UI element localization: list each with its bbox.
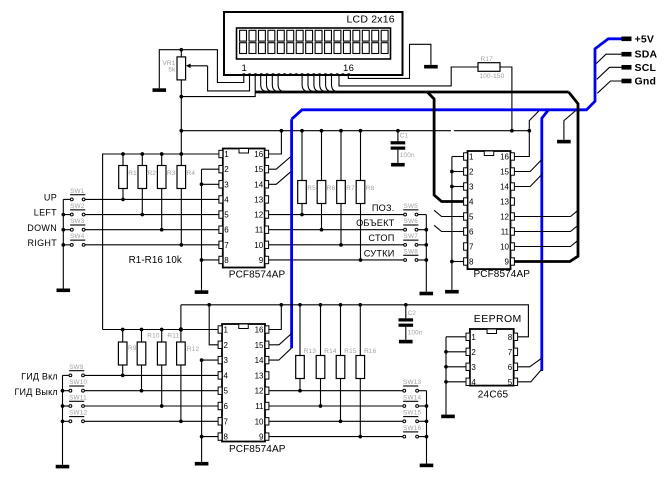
node IC1 pin16 rail junction	[280, 129, 284, 133]
svg-text:PCF8574AP: PCF8574AP	[229, 269, 286, 280]
svg-text:+5V: +5V	[635, 33, 655, 45]
svg-text:15: 15	[255, 341, 264, 350]
node SW common row 2	[61, 213, 65, 217]
node SW5-8 common row 3	[424, 258, 428, 262]
ground right of LCD	[424, 65, 438, 69]
wire SW2 left stub	[63, 214, 70, 216]
R1 label	[128, 170, 137, 177]
wire Gnd bundle to local ground	[564, 111, 576, 140]
svg-text:24C65: 24C65	[478, 389, 509, 400]
svg-text:5: 5	[224, 387, 229, 396]
wire IC2 pin14 to I2C branch	[514, 175, 541, 187]
svg-text:R14: R14	[324, 348, 337, 355]
wire SW13 right stub	[419, 390, 427, 392]
node R2 bottom	[140, 213, 144, 217]
LCD pin 1 label	[242, 63, 248, 74]
wire IC3 pins 3,8 common	[202, 360, 219, 462]
wire IC2 pin5 entry	[434, 210, 464, 216]
switch SW14	[403, 394, 422, 407]
node IC2 pin8 junction	[450, 260, 454, 264]
node SW9-12 common row 3	[61, 419, 65, 423]
ground for C1	[391, 163, 405, 167]
node SW13-16 common row 2	[425, 419, 429, 423]
resistor R12 body	[177, 330, 186, 422]
svg-text:R11: R11	[167, 333, 179, 340]
wire LCD bus turn down right	[514, 92, 578, 262]
wire IC1 pin16 to rail	[269, 131, 282, 154]
switch SW6	[403, 218, 418, 231]
node R5 bottom	[300, 213, 304, 217]
wire I2C bundle mid drop (blue)	[290, 119, 293, 348]
svg-text:5: 5	[224, 211, 229, 220]
node R5 rail	[300, 129, 304, 133]
wire IC1 pin15 to I2C	[269, 156, 292, 169]
svg-text:1: 1	[469, 153, 474, 162]
node R10 top	[140, 328, 144, 332]
svg-text:SW15: SW15	[403, 410, 421, 417]
ground for C2	[399, 340, 413, 344]
wire IC1 pin14 to I2C	[269, 171, 292, 184]
switch SW9	[69, 364, 84, 377]
ground for IC1	[195, 290, 209, 294]
resistor R9 body	[118, 330, 127, 376]
R3 label	[167, 170, 176, 177]
IC3 label PCF8574AP	[229, 444, 286, 455]
label R1-R16 10k	[129, 255, 182, 266]
node R11 bottom	[160, 404, 164, 408]
svg-text:4: 4	[471, 378, 476, 387]
wire R17 right to +5V rail	[500, 67, 512, 131]
memory IC U4 24C65 body	[470, 329, 514, 386]
node IC3 pin16 bus2 junction	[279, 303, 283, 307]
terminal SDA	[622, 49, 658, 61]
resistor R16 body	[356, 305, 365, 437]
wire IC2 pin6 entry	[434, 225, 464, 231]
ground for SW5-SW8	[420, 292, 434, 296]
svg-text:PCF8574AP: PCF8574AP	[474, 269, 531, 280]
svg-text:11: 11	[255, 226, 264, 235]
svg-text:8: 8	[224, 433, 229, 442]
node IC1 pin8 junction	[200, 258, 204, 262]
node SW5-8 common row 1	[424, 228, 428, 232]
label RIGHT	[28, 238, 58, 248]
ground for EEPROM	[441, 415, 455, 419]
label ГИД Выкл	[14, 387, 57, 397]
resistor R13 body	[296, 305, 305, 391]
svg-text:6: 6	[224, 402, 229, 411]
wire VR1 wiper to LCD pin2	[208, 66, 250, 91]
resistor R11 body	[157, 330, 166, 407]
wire LCD pin16 to ground	[348, 44, 431, 78]
node LCD pin2	[248, 74, 250, 76]
node R3 top	[160, 152, 164, 156]
node R4 bottom	[179, 243, 183, 247]
VR1 value 5k	[168, 66, 176, 73]
svg-text:3: 3	[469, 183, 474, 192]
wire LCD bus branch down	[427, 92, 463, 202]
label СУТКИ	[364, 248, 395, 258]
C2 label	[408, 310, 417, 317]
svg-text:9: 9	[259, 433, 264, 442]
svg-text:5k: 5k	[168, 66, 176, 73]
R6 label	[327, 185, 336, 192]
svg-text:R5: R5	[307, 185, 316, 192]
wire IC1 pin12 row	[269, 214, 404, 216]
svg-text:4: 4	[224, 195, 229, 204]
terminal Gnd	[622, 76, 657, 88]
svg-text:R4: R4	[187, 170, 196, 177]
wire SW11 left stub	[63, 405, 70, 407]
terminal +5V	[622, 33, 655, 45]
wire IC2 pins 1,2,3,8 common	[452, 157, 464, 290]
svg-text:1: 1	[224, 150, 229, 159]
node VR1 top junction	[179, 48, 183, 52]
capacitor C2	[399, 305, 414, 340]
node SW13-16 common row 1	[425, 404, 429, 408]
svg-text:2: 2	[224, 165, 229, 174]
svg-text:12: 12	[255, 387, 264, 396]
svg-text:SW12: SW12	[69, 410, 87, 417]
wire SW12 left stub	[63, 420, 70, 422]
wire VR1 bottom	[180, 80, 182, 154]
wire IC2 pin10 wrap	[514, 240, 578, 246]
svg-text:100n: 100n	[400, 152, 415, 159]
svg-text:11: 11	[501, 228, 510, 237]
node R14 bottom	[319, 404, 323, 408]
svg-text:R3: R3	[167, 170, 176, 177]
wire SW3 to IC1 pin6	[85, 229, 219, 231]
svg-text:Gnd: Gnd	[635, 76, 657, 88]
wire +5V bundle breakout to rail and IC2 pin16	[514, 111, 538, 157]
switch SW13	[403, 379, 422, 392]
svg-text:SW11: SW11	[69, 394, 87, 401]
VR1 label	[162, 60, 175, 67]
node R11 top	[160, 328, 164, 332]
svg-text:SW3: SW3	[70, 218, 85, 225]
switch SW8	[403, 248, 418, 261]
wire IC3 pin16 to bus2	[269, 305, 281, 330]
node IC1 pin3 junction	[200, 182, 204, 186]
wire EEPROM pins 1-4 common	[446, 337, 466, 415]
wire IC3 pin9 row	[269, 436, 403, 438]
wire SW10 to IC3 pin5	[84, 390, 218, 392]
svg-text:8: 8	[469, 258, 474, 267]
wire SW9 to IC3 pin4	[84, 374, 218, 376]
switch SW3	[70, 218, 85, 231]
ground at bundle	[557, 140, 571, 144]
node R3 bottom	[160, 228, 164, 232]
wire SW4 left stub	[63, 244, 70, 246]
node R16 bus2	[358, 303, 362, 307]
node R6 bottom	[320, 228, 324, 232]
svg-text:16: 16	[343, 63, 354, 74]
wire VR1 top to LCD pin1	[181, 50, 244, 83]
svg-text:R12: R12	[187, 346, 200, 353]
svg-text:1: 1	[471, 333, 476, 342]
R11 label	[167, 333, 179, 340]
resistor R3 body	[157, 154, 166, 230]
node R2 top	[140, 152, 144, 156]
wire SW9-SW12 common to ground	[62, 375, 64, 464]
wire SW10 left stub	[63, 390, 70, 392]
svg-text:6: 6	[224, 226, 229, 235]
R14 label	[324, 348, 337, 355]
resistor R10 body	[137, 330, 146, 391]
node R4 top	[179, 152, 183, 156]
switch SW11	[69, 394, 87, 407]
wire VR1 top to junction	[180, 50, 182, 57]
ground for IC2	[445, 290, 459, 294]
C1 value 100n	[400, 152, 415, 159]
switch SW10	[69, 379, 88, 392]
node rail at VR1 line	[179, 129, 183, 133]
node IC2 pin2 junction	[450, 170, 454, 174]
wire SW5-SW8 common to ground	[425, 215, 427, 292]
node IC3 pin8 junction	[200, 435, 204, 439]
svg-text:R16: R16	[364, 348, 377, 355]
svg-text:5: 5	[508, 378, 513, 387]
svg-text:16: 16	[255, 326, 264, 335]
ground for SW13-SW16	[420, 464, 434, 468]
wire SW8 right stub	[418, 259, 426, 261]
svg-text:5: 5	[469, 213, 474, 222]
wire I2C bundle main (blue)	[292, 39, 622, 119]
svg-text:2: 2	[469, 168, 474, 177]
svg-text:16: 16	[500, 153, 509, 162]
svg-text:SDA: SDA	[635, 49, 658, 61]
svg-text:13: 13	[255, 371, 264, 380]
svg-text:8: 8	[508, 333, 513, 342]
wire IC2 pin12 wrap	[514, 210, 578, 216]
svg-text:14: 14	[500, 183, 509, 192]
wire VR1 top to ground	[159, 50, 181, 89]
R17 label	[481, 56, 494, 63]
label UP	[44, 193, 57, 203]
R15 label	[344, 348, 357, 355]
wire SW11 to IC3 pin6	[84, 405, 218, 407]
svg-text:7: 7	[224, 241, 229, 250]
svg-text:2: 2	[224, 341, 229, 350]
svg-text:SW2: SW2	[70, 203, 85, 210]
svg-text:R10: R10	[147, 333, 160, 340]
wires LCD pins 8-13 onto bus	[301, 74, 338, 92]
ground for SW9-SW12	[56, 465, 70, 469]
node SW common row 4	[61, 243, 65, 247]
svg-text:R8: R8	[366, 185, 375, 192]
wire IC1 pin9 row	[269, 259, 404, 261]
node IC3 pin3 junction	[200, 358, 204, 362]
svg-text:SCL: SCL	[635, 62, 657, 74]
wire IC3 pin14 to I2C	[269, 348, 292, 360]
svg-text:ОБЪЕКТ: ОБЪЕКТ	[356, 218, 395, 228]
node IC2 pin3 junction	[450, 185, 454, 189]
node R15 bottom	[339, 419, 343, 423]
node R9 top	[121, 328, 125, 332]
wire SW2 to IC1 pin5	[85, 214, 219, 216]
svg-text:RIGHT: RIGHT	[28, 238, 58, 248]
resistor R8 body	[356, 131, 365, 260]
node SW9-12 common row 1	[61, 389, 65, 393]
IC1 pin numbers	[224, 150, 263, 265]
svg-text:12: 12	[254, 211, 263, 220]
wire LCD pin3 to VR1 bottom	[181, 75, 255, 97]
wire EEPROM pin5 to I2C branch	[518, 370, 542, 382]
wire IC3 pin2 to bus2	[209, 305, 218, 345]
resistor R4 body	[177, 154, 186, 245]
resistor R17 body	[478, 63, 500, 72]
svg-text:12: 12	[500, 213, 509, 222]
node C1 rail junction	[396, 129, 400, 133]
wire bus2 from bus1 up	[180, 305, 182, 330]
IC2 label PCF8574AP	[474, 269, 531, 280]
wire I2C bundle EEPROM branch (blue)	[542, 110, 549, 371]
node R7 rail	[339, 129, 343, 133]
svg-text:10: 10	[255, 417, 264, 426]
op IC U1 PCF8574AP body	[223, 149, 265, 268]
wire +5V rail right segment	[454, 130, 528, 132]
op IC U2 PCF8574AP body	[468, 151, 511, 269]
node LCD pin1	[243, 74, 245, 76]
C1 label	[400, 132, 409, 139]
svg-text:EEPROM: EEPROM	[474, 313, 522, 325]
wire SW6 right stub	[418, 229, 426, 231]
svg-text:C2: C2	[408, 310, 417, 317]
switch SW2	[70, 203, 85, 216]
svg-text:R15: R15	[344, 348, 357, 355]
R9 label	[128, 345, 137, 352]
node R6 rail	[320, 129, 324, 133]
label EEPROM	[474, 313, 522, 325]
R7 label	[346, 185, 355, 192]
wire SW7 right stub	[418, 244, 426, 246]
wire IC2 pin11 wrap	[514, 225, 578, 231]
svg-text:R13: R13	[304, 348, 317, 355]
LCD module LCD 2x16 outer box	[224, 12, 403, 75]
svg-text:100-150: 100-150	[480, 73, 505, 80]
svg-text:ПОЗ.: ПОЗ.	[372, 203, 395, 213]
node R13 bottom	[298, 389, 302, 393]
svg-text:SW6: SW6	[404, 218, 419, 225]
wire LCD data bus horizontal	[255, 91, 568, 94]
svg-text:SW7: SW7	[404, 233, 419, 240]
svg-text:СТОП: СТОП	[368, 233, 394, 243]
wire SW13-SW16 common to ground	[426, 391, 428, 464]
svg-text:SW13: SW13	[403, 379, 421, 386]
R12 label	[187, 346, 200, 353]
wire +5V rail left segment	[181, 130, 451, 132]
node R1 bottom	[121, 198, 125, 202]
node R12 bottom	[179, 419, 183, 423]
R10 label	[147, 333, 160, 340]
node R7 bottom	[339, 243, 343, 247]
wire SW3 left stub	[63, 229, 70, 231]
EEPROM pin numbers	[471, 333, 512, 387]
wire IC3 pin11 row	[269, 405, 403, 407]
svg-text:14: 14	[254, 180, 263, 189]
LCD label	[347, 13, 395, 25]
svg-text:3: 3	[471, 363, 476, 372]
node R10 bottom	[140, 389, 144, 393]
svg-text:10: 10	[500, 243, 509, 252]
wire bus2 horizontal to EEPROM pin8	[181, 305, 529, 337]
svg-text:13: 13	[254, 195, 263, 204]
svg-text:7: 7	[508, 348, 513, 357]
EEPROM label 24C65	[478, 389, 509, 400]
svg-text:3: 3	[224, 180, 229, 189]
C2 value 100n	[408, 329, 423, 336]
svg-text:SW5: SW5	[404, 203, 419, 210]
capacitor C1	[391, 131, 406, 163]
IC1 label PCF8574AP	[229, 269, 286, 280]
svg-text:2: 2	[471, 348, 476, 357]
label DOWN	[27, 223, 57, 233]
R16 label	[364, 348, 377, 355]
wire bus1 vertical to IC3	[103, 329, 219, 331]
svg-text:R1-R16 10k: R1-R16 10k	[129, 255, 182, 266]
label ОБЪЕКТ	[356, 218, 395, 228]
resistor R14 body	[316, 305, 325, 406]
svg-text:ГИД Выкл: ГИД Выкл	[14, 387, 57, 397]
potentiometer VR1 body	[177, 57, 186, 80]
node SW9-12 common row 2	[61, 404, 65, 408]
wire SW14 right stub	[419, 405, 427, 407]
svg-text:11: 11	[255, 402, 264, 411]
label LEFT	[34, 208, 57, 218]
wire SDA breakout	[596, 54, 621, 63]
svg-text:R1: R1	[128, 170, 137, 177]
svg-text:3: 3	[224, 356, 229, 365]
wire SW1-SW4 common to ground	[62, 199, 64, 288]
wire SW9 left stub	[63, 374, 70, 376]
wire EEPROM pin6 to I2C branch	[518, 359, 542, 367]
node SW13-16 common row 3	[425, 435, 429, 439]
R4 label	[187, 170, 196, 177]
node LCD pin16	[347, 74, 349, 76]
switch SW16	[403, 425, 422, 438]
node R8 rail	[359, 129, 363, 133]
switch SW12	[69, 410, 88, 423]
resistor R1 body	[119, 154, 128, 199]
label ПОЗ.	[372, 203, 395, 213]
op IC U3 PCF8574AP body	[222, 324, 265, 442]
node IC3 pin2 bus2 junction	[207, 303, 211, 307]
wire R1-R4 top bus to IC1 pin1	[103, 154, 219, 330]
R2 label	[148, 170, 157, 177]
svg-text:4: 4	[469, 198, 474, 207]
LCD character cells 2x16	[240, 30, 389, 53]
node R1 top	[121, 152, 125, 156]
IC3 pin boxes	[218, 326, 269, 441]
svg-text:PCF8574AP: PCF8574AP	[229, 444, 286, 455]
switch SW4	[70, 233, 85, 246]
svg-text:9: 9	[259, 256, 264, 265]
svg-text:UP: UP	[44, 193, 57, 203]
switch SW5	[403, 203, 418, 216]
wire Gnd breakout	[597, 81, 621, 93]
R8 label	[366, 185, 375, 192]
svg-text:15: 15	[500, 168, 509, 177]
svg-text:SW4: SW4	[70, 233, 85, 240]
wire IC3 pin12 row	[269, 390, 403, 392]
svg-text:LCD 2x16: LCD 2x16	[347, 13, 395, 25]
svg-text:7: 7	[469, 243, 474, 252]
svg-text:ГИД Вкл: ГИД Вкл	[21, 372, 58, 382]
wire SW1 left stub	[63, 198, 70, 200]
svg-text:15: 15	[254, 165, 263, 174]
wire IC2 pin15 to I2C branch	[514, 160, 541, 172]
wire SW4 to IC1 pin7	[85, 244, 219, 246]
wire SW16 right stub	[419, 436, 427, 438]
